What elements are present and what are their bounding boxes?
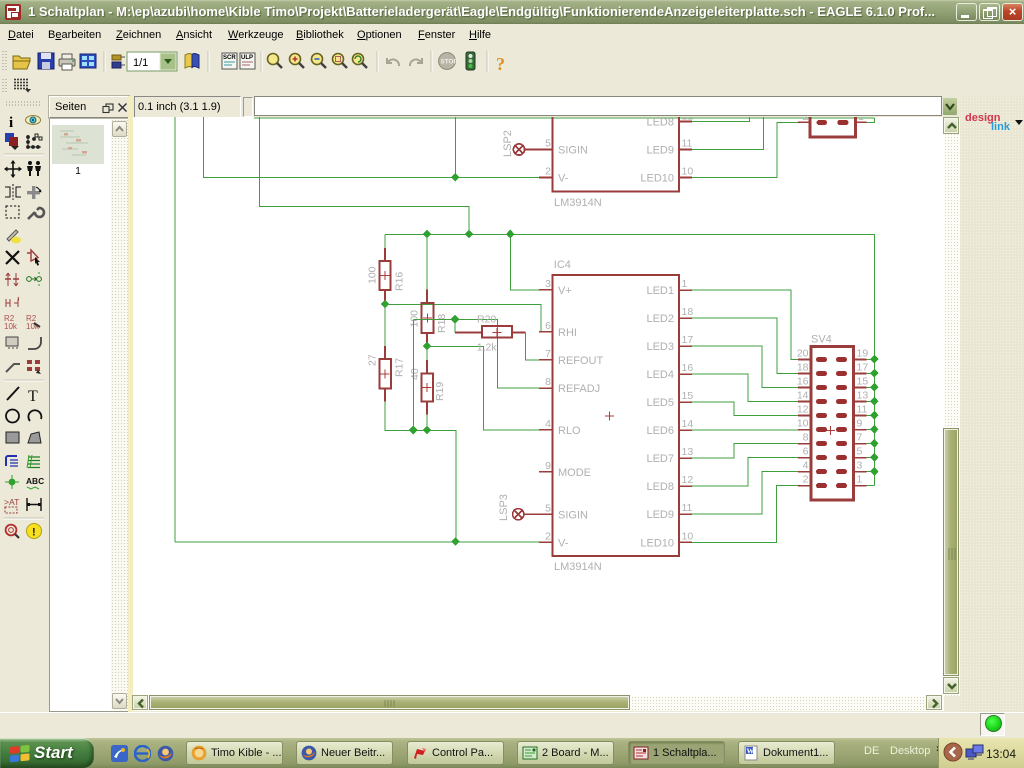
svg-text:10: 10 [682,530,694,542]
svg-text:!: ! [32,527,36,539]
junction dot RLO net b [423,426,432,435]
svg-text:LM3914N: LM3914N [554,561,602,573]
wire LED3 to SV4 pin 16 [692,346,798,387]
SV4 origin cross [826,426,835,435]
svg-text:R19: R19 [434,382,446,401]
svg-text:RHI: RHI [558,327,577,339]
wire LED2 to SV4 pin 18 [692,318,798,373]
svg-text:ULP: ULP [241,55,253,61]
svg-text:8: 8 [803,432,809,444]
svg-text:LED9: LED9 [646,509,674,521]
svg-text:1: 1 [682,278,688,290]
wire R20 left branch [454,320,456,333]
svg-text:10: 10 [797,418,809,430]
svg-text:LED9: LED9 [646,145,674,157]
IC4 box [553,275,680,556]
svg-text:100: 100 [367,266,379,284]
svg-text:2: 2 [803,474,809,486]
svg-text:?: ? [496,54,505,74]
svg-text:1: 1 [858,117,864,123]
svg-text:9: 9 [545,460,551,472]
svg-text:11: 11 [682,138,693,150]
svg-text:11: 11 [682,502,693,514]
svg-text:16: 16 [682,362,694,374]
wire LED7 to SV4 pin 8 [692,444,798,459]
resistor R20 [455,326,526,338]
top IC pin stubs left [539,150,552,178]
svg-text:6: 6 [803,446,809,458]
junction dots SV4 right column [870,355,879,476]
svg-text:7: 7 [545,348,551,360]
wire V+ branch to IC4 [510,234,539,290]
IC4 pin stubs left [539,290,552,542]
IC4 left pin names [558,285,604,549]
junction dot V- top IC [451,173,460,182]
svg-text:16: 16 [797,376,809,388]
wire LED5 to SV4 pin 12 [692,402,798,415]
svg-text:12: 12 [682,474,694,486]
IC4 right pin names [640,285,674,549]
wire top rail [254,117,874,119]
wire R20 to REFOUT [526,333,540,360]
connector SV4 box [811,347,854,500]
svg-text:STOP: STOP [441,59,459,66]
wire LED9 to SV4 pin 4 [692,472,798,515]
svg-text:LED2: LED2 [646,313,674,325]
wire long left vertical V- net [174,117,176,542]
wire R18 top lead [426,234,428,290]
svg-text:11: 11 [857,404,868,416]
svg-text:ABC: ABC [26,476,44,486]
junction dot V+ branch [506,230,515,239]
svg-text:2: 2 [545,530,551,542]
svg-text:1: 1 [857,474,863,486]
svg-text:18: 18 [797,362,809,374]
wire RLO branch [427,346,539,429]
junction dot V- join [451,537,460,546]
svg-text:REFOUT: REFOUT [558,355,604,367]
svg-text:LED8: LED8 [646,481,674,493]
svg-text:R18: R18 [436,314,448,333]
svg-text:MODE: MODE [558,467,591,479]
solder pad LSP3 [513,509,540,520]
svg-text:13: 13 [857,390,869,402]
svg-text:R17: R17 [394,358,406,377]
svg-text:5: 5 [545,502,551,514]
wire top IC LED8 [692,117,749,122]
svg-text:LM3914N: LM3914N [554,197,602,209]
svg-text:14: 14 [682,418,694,430]
svg-text:R20: R20 [477,314,496,326]
svg-text:3: 3 [545,278,551,290]
svg-text:>AT: >AT [4,497,20,507]
IC4 origin cross [605,412,614,421]
svg-text:17: 17 [682,334,694,346]
SV4 left pin numbers [797,348,809,486]
svg-text:LSP3: LSP3 [498,494,510,521]
svg-text:12: 12 [682,117,694,123]
wire top IC LED10 to connector [692,122,798,177]
wire vertical stub above V- wire [454,117,456,178]
SV4 pads [816,357,847,488]
junction dot R18 top [423,230,432,239]
svg-text:7: 7 [857,432,863,444]
svg-text:LED4: LED4 [646,369,674,381]
svg-text:LED10: LED10 [640,537,674,549]
svg-text:LED1: LED1 [646,285,674,297]
wire R18 to R19 [426,346,428,360]
svg-text:V-: V- [558,537,569,549]
wire LED8 to SV4 pin 6 [692,458,798,487]
svg-text:5: 5 [857,446,863,458]
wire R19 bottom [426,415,428,431]
junction dot R18 bottom [423,342,432,351]
wire R16 top lead [384,234,386,249]
IC4 pin stubs right [679,290,692,542]
wire LED6 to SV4 pin 10 [692,429,798,431]
wire V- bottom rail [175,541,539,543]
svg-text:R16: R16 [394,272,406,291]
svg-text:18: 18 [682,306,694,318]
wire R17 bottom [385,402,456,542]
svg-text:13: 13 [682,446,694,458]
svg-text:1,2k: 1,2k [477,342,498,354]
svg-text:20: 20 [797,348,809,360]
top IC pin stubs right [679,122,692,178]
svg-text:10k: 10k [4,322,18,331]
svg-text:3: 3 [857,460,863,472]
SV4 left pin stubs [798,360,811,486]
svg-text:IC4: IC4 [554,259,571,271]
SV4 right pin stubs [854,360,867,486]
wire third vertical to V+ rail [259,117,469,234]
svg-text:19: 19 [857,348,869,360]
IC4 left pin numbers [545,278,551,542]
wire LED4 to SV4 pin 14 [692,374,798,401]
svg-text:27: 27 [367,354,379,366]
wire R16 to R17 [384,303,386,346]
svg-text:SIGIN: SIGIN [558,145,588,157]
svg-text:V+: V+ [558,285,572,297]
svg-text:1/1: 1/1 [133,57,148,69]
SV4 right pin numbers [857,348,869,486]
svg-text:V-: V- [558,173,569,185]
svg-text:14: 14 [797,390,809,402]
wire top IC LED9 [692,117,763,150]
svg-text:9: 9 [857,418,863,430]
svg-text:LED10: LED10 [640,173,674,185]
svg-text:SIGIN: SIGIN [558,509,588,521]
svg-text:17: 17 [857,362,869,374]
solder pad LSP2 [513,144,539,155]
svg-text:100: 100 [409,310,421,328]
junction dot RLO net a [409,426,418,435]
svg-text:i: i [9,115,13,131]
resistor R19 [421,360,433,415]
svg-text:6: 6 [545,320,551,332]
junction dot R20 branch [451,315,460,324]
top connector pads [817,120,827,125]
wire REFADJ net horizontal [413,320,539,389]
wire LED10 to SV4 pin 2 [692,486,798,543]
wire to RHI [385,304,541,332]
svg-text:10: 10 [682,166,694,178]
svg-text:REFADJ: REFADJ [558,383,600,395]
wire REFADJ net vertical [412,320,414,431]
svg-text:LED8: LED8 [646,117,674,129]
wire rail corner to top connector pin 1 [867,118,875,122]
junction dot R16 bottom [381,300,390,309]
resistor R17 [379,346,391,401]
svg-text:40: 40 [409,368,421,380]
svg-text:LED6: LED6 [646,425,674,437]
IC4 right pin numbers [682,278,694,542]
wire second vertical to top IC V- [204,117,540,178]
resistor R16 [379,248,390,303]
svg-text:LED7: LED7 [646,453,674,465]
svg-text:4: 4 [803,460,809,472]
SV4 right bus stubs to vertical [867,360,875,486]
svg-text:SCR: SCR [223,55,236,61]
wire LED1 to SV4 pin 20 [692,290,798,359]
svg-text:4: 4 [545,418,551,430]
top connector pin stubs [798,121,867,123]
svg-text:5: 5 [545,138,551,150]
svg-text:8: 8 [545,376,551,388]
svg-text:15: 15 [682,390,694,402]
wire V+ horizontal rail [385,234,874,485]
top IC box LM3914N [553,108,680,191]
svg-text:T: T [28,388,38,405]
svg-text:LED3: LED3 [646,341,674,353]
svg-text:2: 2 [803,117,809,123]
resistor R18 [422,290,434,346]
svg-text:LSP2: LSP2 [502,130,514,157]
svg-text:RLO: RLO [558,425,581,437]
svg-text:12: 12 [797,404,809,416]
svg-text:2: 2 [545,166,551,178]
svg-text:W: W [747,747,755,756]
svg-text:SV4: SV4 [811,334,832,346]
svg-text:15: 15 [857,376,869,388]
junction dot rail mid [465,230,474,239]
svg-text:LED5: LED5 [646,397,674,409]
top connector box [810,104,856,137]
